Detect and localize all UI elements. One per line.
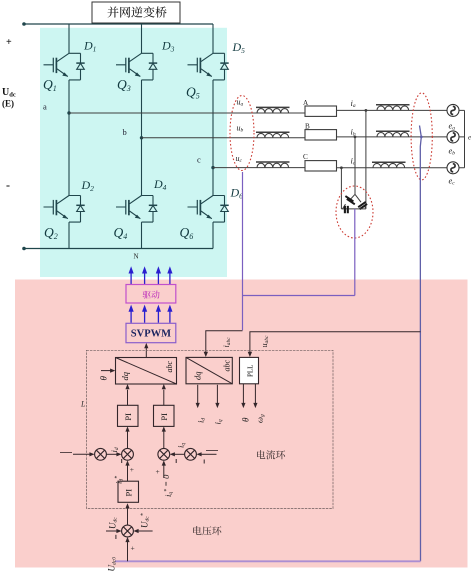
svg-text:C: C bbox=[303, 153, 308, 161]
capacitor C2 (right branch with plates) bbox=[355, 194, 367, 209]
wire: Udc0 reference bottom line bbox=[115, 560, 421, 562]
title box 并网逆变桥 (grid-tied inverter bridge) bbox=[92, 2, 180, 23]
block: 驱动 (gate driver) bbox=[126, 285, 176, 304]
summing junction S5 (DC voltage error) bbox=[122, 525, 134, 537]
svg-text:ua: ua bbox=[237, 98, 244, 108]
node a bbox=[67, 111, 70, 114]
wire: capacitor bank sense down + across bbox=[243, 209, 355, 296]
transistor Q3 with antiparallel diode D3 bbox=[116, 53, 157, 80]
svg-text:L: L bbox=[80, 400, 86, 409]
svg-text:N: N bbox=[134, 253, 139, 261]
svg-text:abc: abc bbox=[165, 361, 174, 373]
label omega-L tick (right) bbox=[206, 450, 218, 452]
svg-text:dq: dq bbox=[120, 371, 130, 380]
svg-text:PI: PI bbox=[159, 413, 169, 421]
wire: i_abc feed into abc/dq block bbox=[206, 331, 243, 353]
block: PI3 (voltage loop) regulator bbox=[118, 481, 139, 502]
resistor C (damping) bbox=[305, 161, 337, 171]
label theta input bbox=[101, 370, 111, 372]
svg-text:D6: D6 bbox=[230, 186, 244, 201]
inductor L1 phase a bbox=[256, 107, 290, 113]
block: PI1 (d-axis) regulator bbox=[118, 405, 139, 426]
gate drive arrows (驱动 to bridge) bbox=[129, 266, 134, 284]
wire: i_q*=0 into S3 bbox=[163, 465, 165, 478]
arrows: i_d i_q outputs of abc/dq bbox=[197, 385, 199, 404]
transistor Q2 with antiparallel diode D2 bbox=[44, 196, 85, 223]
pink control region bbox=[15, 280, 468, 568]
sensing ellipse around filter capacitors bbox=[336, 186, 373, 238]
wire: u_abc feed into PLL from grid sense bbox=[250, 332, 421, 353]
block: abc to dq transform (current measurement) bbox=[186, 357, 232, 383]
arrows: theta omega outputs of PLL bbox=[242, 384, 244, 404]
sensing ellipse: inverter-side voltages ua ub uc bbox=[230, 96, 254, 171]
block: dq to abc transform (feeds SVPWM) bbox=[116, 358, 177, 385]
wire: U_dc into S5 left bbox=[106, 530, 117, 532]
svg-text:ec: ec bbox=[449, 176, 456, 187]
wire: U_dc0 into S5 bottom bbox=[127, 542, 129, 562]
wire: phase c grid side bbox=[337, 167, 448, 169]
arrow: dq/abc block to SVPWM bbox=[145, 348, 147, 358]
wire: into S4 from right bbox=[201, 453, 217, 455]
wire: into S1 from left bbox=[73, 453, 90, 455]
wire: phase a grid side bbox=[337, 109, 448, 111]
svg-text:+: + bbox=[130, 465, 134, 474]
wire: phase-leg verticals of inverter bridge bbox=[69, 24, 213, 249]
wire: grid neutral bus bbox=[459, 110, 465, 167]
wire: U_dc* into S5 right bbox=[138, 530, 153, 532]
inductor L2 (grid) phase a bbox=[376, 105, 410, 111]
block: SVPWM bbox=[126, 323, 176, 342]
svg-text:θ: θ bbox=[98, 376, 108, 381]
transistor Q4 with antiparallel diode D4 bbox=[116, 196, 157, 223]
svg-text:ia: ia bbox=[351, 98, 356, 109]
cyan inverter-bridge region bbox=[40, 28, 227, 277]
wire: S2 up to PI1 bbox=[127, 432, 129, 449]
svg-text:abc: abc bbox=[223, 360, 232, 372]
wire: S1 to S2 (i_d) bbox=[106, 453, 117, 455]
wire: phase a line bbox=[69, 112, 305, 114]
inductor L1 phase b bbox=[256, 132, 290, 138]
svg-text:PI: PI bbox=[123, 489, 133, 497]
arrows SVPWM to 驱动 bbox=[129, 305, 134, 323]
AC source ec bbox=[447, 162, 459, 174]
svg-text:-: - bbox=[6, 178, 10, 192]
resistor B (damping) bbox=[305, 130, 337, 140]
svg-text:SVPWM: SVPWM bbox=[131, 329, 171, 340]
svg-text:a: a bbox=[43, 102, 47, 112]
minus ticks at junction inputs bbox=[122, 459, 205, 464]
capacitor-bank tap wire phase c bbox=[340, 168, 342, 209]
svg-text:Udc: Udc bbox=[2, 87, 16, 99]
svg-text:D5: D5 bbox=[232, 40, 246, 55]
svg-text:b: b bbox=[123, 127, 127, 137]
node b bbox=[140, 136, 143, 139]
wire: S3 up to PI2 bbox=[163, 432, 165, 449]
svg-text:ub: ub bbox=[237, 124, 244, 134]
svg-text:e: e bbox=[468, 134, 471, 142]
transistor Q5 with antiparallel diode D5 bbox=[188, 53, 229, 80]
svg-text:A: A bbox=[303, 99, 309, 107]
resistor A (damping) bbox=[305, 106, 337, 116]
summing junction S1 (d-axis coupling) bbox=[95, 448, 107, 460]
wire: bottom DC rail (-) bbox=[22, 247, 213, 251]
wire: grid voltage sense line (to PLL) bbox=[420, 126, 422, 562]
summing junction S3 (q-axis error) bbox=[158, 448, 170, 460]
arrows: PI outputs into dq/abc bbox=[127, 390, 129, 406]
transistor Q6 with antiparallel diode D6 bbox=[188, 196, 229, 223]
transistor Q1 with antiparallel diode D1 bbox=[44, 53, 85, 80]
wire: i_d* from PI3 into S2 bbox=[127, 465, 129, 481]
wire: S5 up to PI3 bbox=[127, 508, 129, 525]
summing junction S2 (d-axis error) bbox=[122, 448, 134, 460]
svg-text:PI: PI bbox=[123, 413, 133, 421]
wire: capacitor voltage sense vertical bbox=[242, 172, 244, 330]
wire: phase c line bbox=[213, 167, 305, 169]
svg-text:dq: dq bbox=[193, 371, 203, 380]
inductor L2 (grid) phase c bbox=[372, 162, 406, 168]
label 电压环 voltage loop bbox=[193, 526, 201, 535]
block: PI2 (q-axis) regulator bbox=[154, 405, 175, 426]
minus tick at S5 left bbox=[115, 535, 117, 539]
label omega-L tick (left) bbox=[60, 451, 72, 453]
wire: S4 to S3 (i_q) bbox=[174, 453, 185, 455]
wire: top DC rail (+) bbox=[22, 22, 213, 26]
capacitor C1 (left branch with plates) bbox=[343, 194, 356, 209]
svg-text:(E): (E) bbox=[2, 99, 14, 109]
svg-text:+: + bbox=[6, 37, 12, 48]
svg-text:eb: eb bbox=[449, 146, 456, 157]
capacitor-bank tap wire phase a bbox=[365, 110, 367, 208]
svg-text:+: + bbox=[156, 467, 160, 476]
sensing ellipse: grid voltages bbox=[411, 93, 432, 180]
svg-text:PLL: PLL bbox=[247, 365, 255, 377]
block: PLL bbox=[240, 357, 259, 383]
capacitor-bank tap wire phase b bbox=[354, 137, 356, 194]
wire: phase b grid side bbox=[337, 136, 448, 138]
AC source eb bbox=[447, 131, 459, 143]
dashed frame: current loop 电流环 bbox=[86, 350, 333, 508]
node c bbox=[211, 166, 214, 169]
svg-text:uc: uc bbox=[236, 154, 243, 164]
label 电流环 current loop bbox=[257, 450, 265, 459]
capacitor C3 (vertical plates on bottom bus) bbox=[345, 206, 348, 213]
AC source ea bbox=[447, 104, 459, 116]
svg-text:c: c bbox=[197, 155, 201, 165]
inductor L1 phase c bbox=[256, 162, 290, 168]
svg-text:+: + bbox=[131, 544, 135, 553]
wire: phase b line bbox=[142, 137, 306, 139]
svg-text:ea: ea bbox=[449, 121, 456, 132]
wire: capacitor bank bottom bus bbox=[341, 208, 366, 210]
svg-text:θ: θ bbox=[241, 417, 251, 422]
summing junction S4 (q-axis coupling) bbox=[185, 448, 197, 460]
svg-text:B: B bbox=[305, 123, 310, 131]
inductor L2 (grid) phase b bbox=[376, 131, 410, 137]
